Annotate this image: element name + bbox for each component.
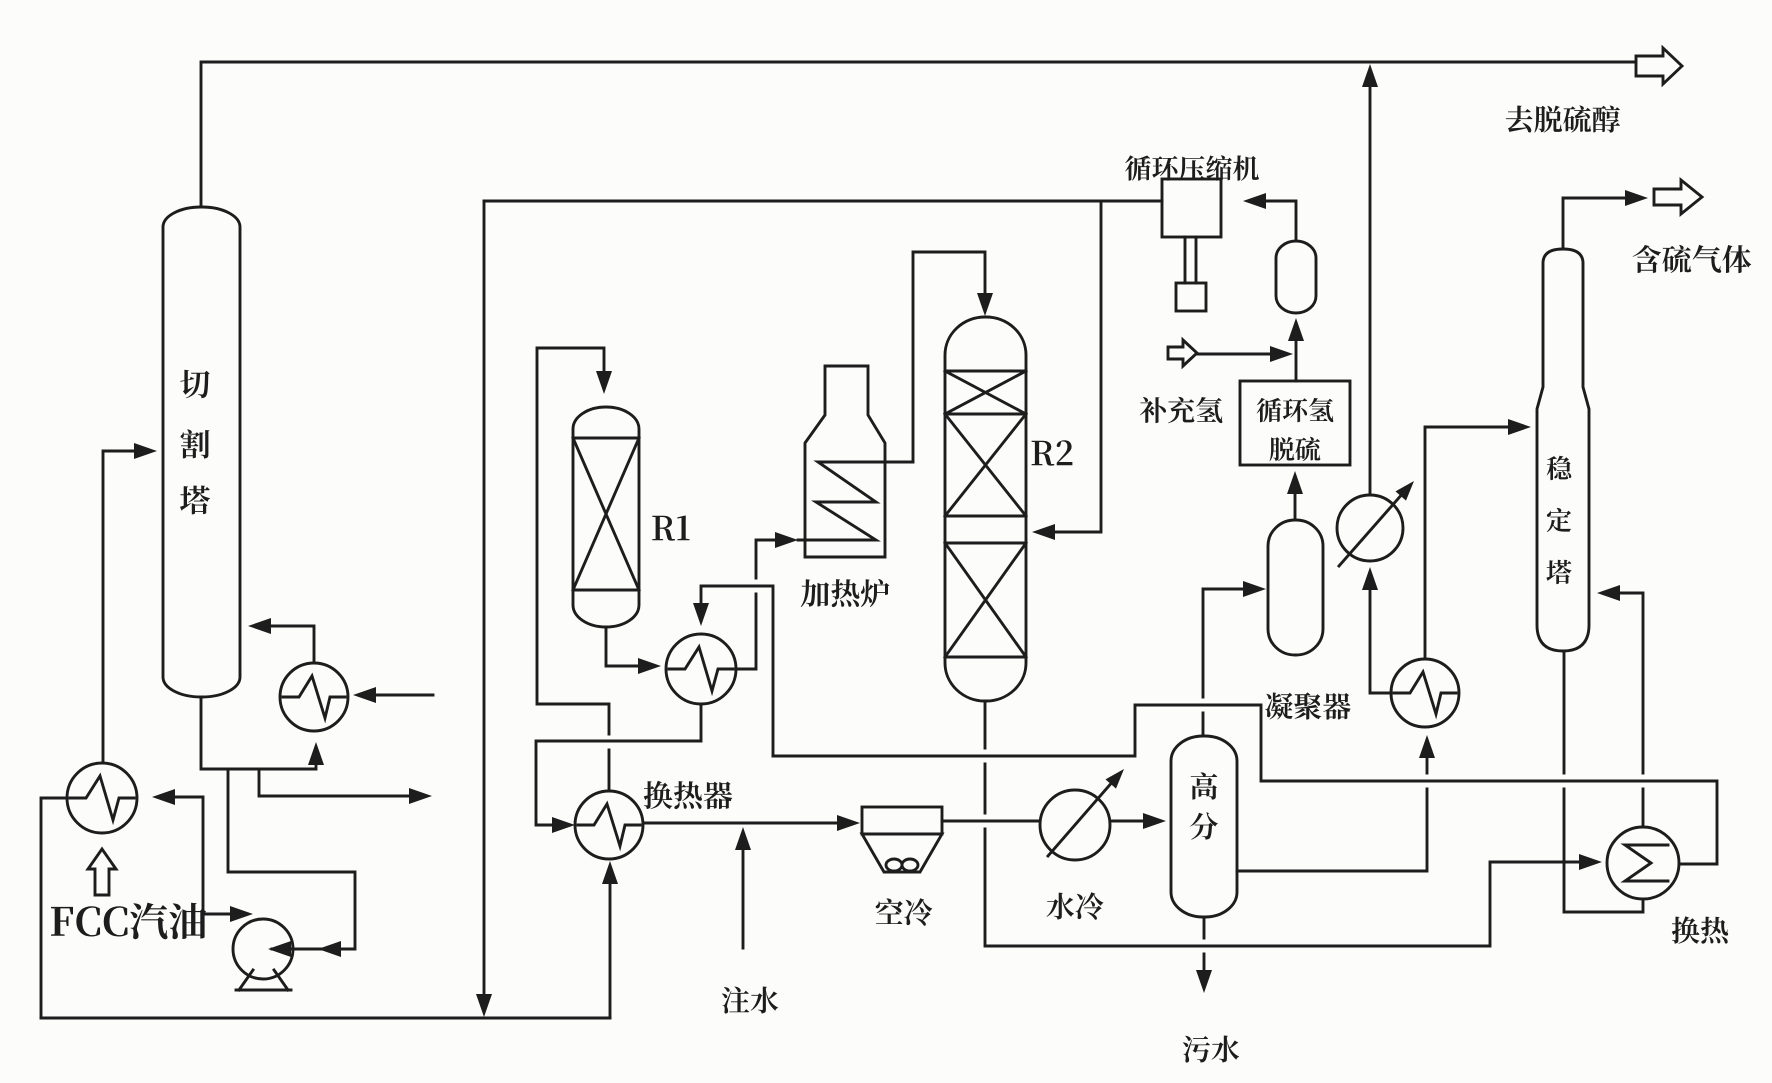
wire stabilizer overhead <box>1563 198 1626 249</box>
heat exchanger FCC feed/bottoms <box>67 763 137 833</box>
column 切割塔 (splitter tower) <box>163 207 240 697</box>
wire R2 bottoms to 换热 <box>985 701 1580 946</box>
label 切割塔 <box>180 370 210 515</box>
wire makeup hydrogen <box>1197 353 1271 356</box>
label 高分 <box>1190 772 1218 839</box>
furnace coil <box>798 462 913 540</box>
furnace 加热炉 <box>805 366 885 557</box>
wire hot feed into R1 exchanger top <box>701 586 773 756</box>
outlet arrow 含硫气体 <box>1654 180 1702 214</box>
wire product pump riser to header <box>1369 78 1372 495</box>
wire R1 bottom to exchanger <box>606 627 639 666</box>
wire furnace outlet to R2 top <box>913 252 985 462</box>
wire compressor to R2 quench <box>1046 201 1101 532</box>
box 循环氢脱硫 <box>1240 381 1350 465</box>
wire heated FCC feed to splitter <box>103 451 141 763</box>
vessel 凝聚器 (coalescer) <box>1268 520 1323 655</box>
outlet arrow 去脱硫醇 <box>1636 48 1682 84</box>
heat exchanger 换热器 (feed/effluent) <box>575 791 643 859</box>
wire bottoms to pump suction <box>228 769 355 949</box>
wire recycle H2 header (compressor to loop) <box>484 200 1162 203</box>
heat exchanger splitter reboiler <box>280 663 348 731</box>
inlet arrow 补充氢 <box>1168 340 1197 366</box>
wire recycle H2 downcomer <box>483 201 486 996</box>
separator 高分 <box>1171 736 1237 917</box>
label 凝聚器 <box>1265 692 1350 719</box>
air cooler 空冷 <box>862 807 942 872</box>
wire stabilizer feed <box>1425 427 1509 659</box>
heat exchanger 换热 (reboiler) <box>1607 827 1679 899</box>
label R1 <box>652 516 689 541</box>
wire splitter bottoms to reboiler <box>201 697 316 769</box>
wire R1 feed from 换热器 top <box>537 348 609 791</box>
label 换热 <box>1672 916 1728 943</box>
wire suction drum to compressor <box>1265 201 1296 241</box>
wire FCC exchanger to feed header <box>41 798 67 1018</box>
compressor suction drum <box>1276 241 1316 313</box>
label 污水 <box>1183 1036 1239 1063</box>
wire separator drain 污水 <box>1203 917 1206 971</box>
wire feed header bottom <box>41 1017 610 1020</box>
wire R2 effluent cooling train <box>773 705 1717 864</box>
reactor R2 <box>945 317 1026 701</box>
pump product (circle with arrow) <box>1337 481 1414 566</box>
label 稳定塔 <box>1546 456 1571 584</box>
inlet arrow FCC汽油 <box>88 849 116 895</box>
heat exchanger stabilizer feed <box>1391 659 1459 727</box>
wire pump discharge to FCC exchanger <box>170 797 233 914</box>
label 空冷 <box>876 898 933 926</box>
label 循环压缩机 <box>1125 155 1259 180</box>
label 换热器 <box>644 781 733 809</box>
label R2 <box>1032 440 1073 465</box>
wire reboiler return to stabilizer <box>1619 593 1643 827</box>
pump FCC feed <box>233 919 293 990</box>
label 注水 <box>722 987 778 1014</box>
wire separator gas to coalescer <box>1203 589 1244 736</box>
label 水冷 <box>1047 892 1104 920</box>
wire coalescer to 循环氢脱硫 <box>1294 493 1297 520</box>
label 补充氢 <box>1140 397 1223 423</box>
label 去脱硫醇 <box>1506 105 1620 132</box>
reactor R1 <box>573 407 639 627</box>
wire product to pump <box>1370 589 1391 693</box>
wire stabilizer bottoms to 换热 <box>1564 651 1643 912</box>
column 稳定塔 (stabilizer) <box>1537 249 1589 651</box>
label 含硫气体 <box>1633 245 1752 273</box>
label 加热炉 <box>801 579 890 607</box>
wire R1 exchanger bottom to 换热器 <box>536 704 701 825</box>
wire separator liquid to stab-feed exchanger <box>1237 757 1427 871</box>
label FCC汽油 <box>51 903 206 940</box>
water cooler 水冷 <box>1040 769 1124 860</box>
wire reboiler return to splitter <box>270 626 314 663</box>
wire water cooler to separator <box>1110 820 1144 823</box>
compressor 循环压缩机 <box>1162 179 1221 311</box>
wire light product draw <box>259 770 410 796</box>
wire 注水 injection <box>742 849 745 948</box>
wire 换热器 to air cooler <box>643 822 838 825</box>
wire feed riser to 换热器 <box>609 884 612 1018</box>
wire heat stub into reboiler <box>375 694 433 697</box>
label 循环氢脱硫 <box>1257 398 1334 461</box>
wire splitter overhead to top header <box>201 62 1636 207</box>
wire furnace inlet <box>736 540 776 669</box>
wire air cooler to water cooler <box>942 820 1040 823</box>
wire 循环氢脱硫 to suction drum <box>1295 340 1298 381</box>
heat exchanger R1 effluent <box>666 634 736 704</box>
